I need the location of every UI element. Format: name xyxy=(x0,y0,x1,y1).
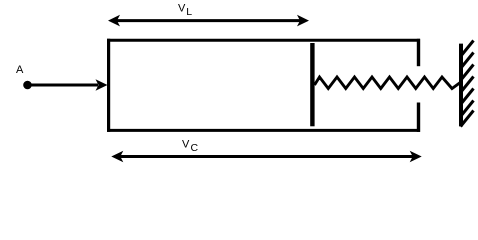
svg-text:V: V xyxy=(182,138,190,150)
svg-text:V: V xyxy=(178,2,186,14)
dimension arrow VL xyxy=(108,15,309,27)
dimension arrow VC xyxy=(111,151,421,163)
wall hatch 2 xyxy=(461,53,474,69)
spring xyxy=(315,77,461,89)
cylinder top wall xyxy=(107,39,420,42)
wall hatch 6 xyxy=(461,101,474,117)
piston xyxy=(310,43,314,126)
svg-text:A: A xyxy=(16,64,24,76)
svg-text:L: L xyxy=(186,6,192,18)
cylinder bottom wall xyxy=(107,129,420,132)
cylinder left wall xyxy=(107,39,110,132)
fixed wall xyxy=(459,44,463,127)
svg-text:C: C xyxy=(191,142,199,154)
wall hatch 4 xyxy=(461,77,474,93)
wall hatch 3 xyxy=(461,65,474,81)
wall hatch 5 xyxy=(461,89,474,105)
wall hatch 1 xyxy=(461,41,474,57)
cylinder right wall lower segment xyxy=(417,103,420,132)
force arrow A to cylinder wall xyxy=(28,79,108,91)
node A dot xyxy=(23,81,32,90)
cylinder right wall upper segment xyxy=(417,39,420,66)
wall hatch 7 xyxy=(461,111,474,127)
